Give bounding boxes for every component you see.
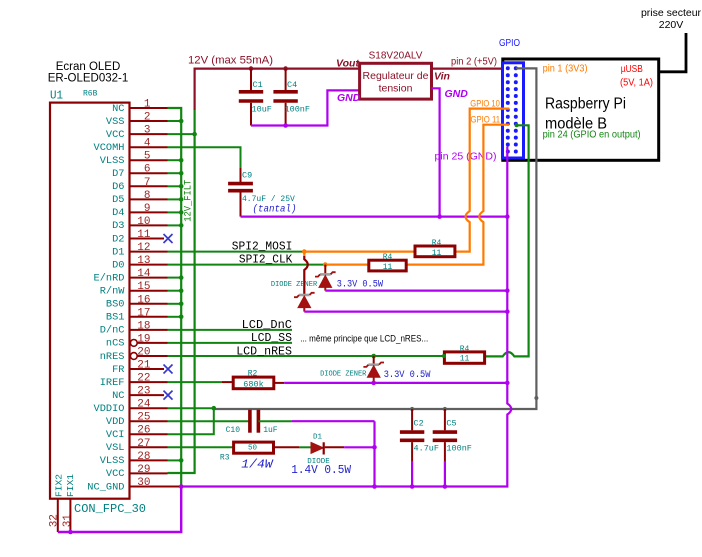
wire pin 6 to GND bus: [168, 171, 184, 176]
wire GPIO pin24 to LCD_nRES R4: [485, 123, 529, 356]
pin 9 (D4): [112, 203, 167, 219]
title text Ecran OLED: [48, 61, 129, 85]
svg-text:FIX2: FIX2: [54, 474, 65, 497]
junction purple C: [505, 381, 510, 386]
svg-text:R3: R3: [220, 454, 230, 463]
wire GND zener MOSI: [304, 311, 507, 313]
svg-text:prise secteur: prise secteur: [641, 7, 702, 19]
svg-text:10uF: 10uF: [252, 105, 272, 115]
junction gray vertical: [534, 396, 538, 400]
wire pin 17 to GND bus: [168, 315, 184, 320]
junction nRES/zener: [371, 354, 376, 359]
label pin 1 (3V3): [543, 64, 588, 75]
label GPIO 11: [471, 114, 501, 125]
svg-text:C9: C9: [242, 171, 252, 181]
label prise secteur 220V: [641, 7, 702, 31]
svg-text:8: 8: [144, 190, 151, 202]
svg-text:Regulateur de: Regulateur de: [363, 70, 429, 82]
junction C5/GND rail: [443, 484, 448, 489]
svg-text:220V: 220V: [659, 19, 684, 31]
svg-text:BS0: BS0: [106, 299, 125, 311]
svg-text:11: 11: [137, 229, 151, 241]
wire nRES zener lead: [373, 356, 375, 365]
wire pin4 VCOMH to C9: [168, 147, 241, 170]
svg-text:LCD_nRES: LCD_nRES: [236, 344, 292, 358]
wire pin 10 to GND bus: [168, 223, 184, 228]
svg-text:12: 12: [137, 242, 150, 254]
label GPIO 10: [470, 98, 500, 109]
svg-text:NC: NC: [112, 390, 124, 402]
wire LCD_SS (pin19): [168, 342, 293, 344]
wire GND zener CLK: [325, 290, 507, 292]
svg-text:E/nRD: E/nRD: [94, 272, 125, 284]
label 12V (max 55mA): [188, 55, 273, 67]
wire SPI2_CLK (pin13): [168, 264, 369, 266]
svg-text:4.7uF: 4.7uF: [414, 444, 440, 454]
capacitor C10: [226, 410, 278, 435]
svg-text:14: 14: [137, 268, 151, 280]
junction pin30/GND: [179, 484, 184, 489]
svg-text:D1: D1: [112, 246, 124, 258]
svg-text:µUSB: µUSB: [621, 63, 643, 75]
svg-text:VCI: VCI: [106, 429, 125, 441]
svg-text:2: 2: [144, 112, 151, 124]
svg-text:R4: R4: [432, 239, 442, 248]
wire Vin +5V to GPIO pin2: [432, 67, 508, 69]
connector U1 body (CON_FPC_30): [50, 103, 130, 499]
label pin 24 (GPIO en output): [543, 129, 641, 140]
junction 3V3/C5: [443, 407, 447, 411]
junction 3V3/C2: [410, 407, 414, 411]
junction 12V/C1: [249, 66, 254, 71]
label 3.3V 0.5W (CLK): [337, 280, 383, 291]
label µUSB: [620, 63, 653, 88]
zener diode D2 (MOSI): [294, 293, 315, 312]
label GND left: [337, 92, 361, 104]
svg-text:100nF: 100nF: [446, 444, 472, 454]
resistor R2: [233, 369, 274, 389]
svg-text:5: 5: [144, 151, 151, 163]
pin 28 (VLSS): [100, 451, 168, 467]
wire pin 9 to GND bus: [168, 210, 184, 215]
label LCD_DnC: [242, 318, 292, 332]
pin 24 (VDDIO): [94, 399, 168, 415]
svg-text:NC: NC: [112, 103, 124, 115]
svg-text:R/nW: R/nW: [100, 286, 125, 298]
svg-text:9: 9: [144, 203, 151, 215]
svg-text:D2: D2: [112, 233, 124, 245]
svg-text:BS1: BS1: [106, 312, 125, 324]
junction purple A: [505, 288, 510, 293]
pin 21 (FR): [112, 360, 172, 376]
junction GND rail / pin25 vertical: [505, 214, 510, 219]
junction purple B: [505, 309, 510, 314]
wire VDD (pin25) to C10: [168, 420, 250, 422]
svg-text:D0: D0: [112, 259, 124, 271]
svg-text:680k: 680k: [243, 380, 263, 390]
pin 30 (NC_GND): [87, 477, 167, 493]
svg-text:DIODE ZENER: DIODE ZENER: [320, 371, 367, 379]
resistor R4 (MOSI): [415, 239, 455, 258]
svg-text:nRES: nRES: [100, 351, 125, 363]
svg-text:DIODE ZENER: DIODE ZENER: [271, 281, 318, 289]
svg-text:11: 11: [460, 355, 470, 364]
wire NC_GND (pin30) GND rail: [168, 486, 182, 488]
junction pin31/bottom wire: [68, 530, 73, 535]
label LCD_SS: [251, 331, 292, 345]
junction 12V/C4: [283, 66, 288, 71]
svg-text:D7: D7: [112, 168, 124, 180]
svg-text:R4: R4: [460, 345, 470, 354]
svg-text:11: 11: [432, 249, 442, 258]
pin 23 (NC): [112, 386, 172, 402]
svg-text:R2: R2: [248, 369, 258, 378]
wire GND from regulator left to C1/C4: [251, 90, 360, 125]
capacitor C9: [228, 168, 295, 217]
pin 16 (BS0): [106, 294, 168, 310]
capacitor C2: [400, 409, 439, 487]
svg-text:(tantal): (tantal): [253, 204, 297, 216]
svg-text:GPIO: GPIO: [499, 37, 520, 49]
svg-text:R6B: R6B: [83, 90, 98, 99]
wire bottom GND loop: [58, 487, 181, 533]
svg-text:VCC: VCC: [106, 129, 125, 141]
label meme principe: [300, 334, 428, 344]
svg-text:VDD: VDD: [106, 416, 125, 428]
svg-text:21: 21: [137, 360, 151, 372]
label pin 2 (+5V): [451, 57, 497, 68]
capacitor C1: [239, 69, 272, 126]
wire GPIO10 to R4a: [455, 109, 509, 252]
svg-text:100nF: 100nF: [285, 105, 311, 115]
junction MOSI/zener: [302, 249, 307, 254]
capacitor C4: [273, 69, 310, 126]
svg-text:Ecran OLED: Ecran OLED: [56, 61, 121, 73]
svg-text:nCS: nCS: [106, 338, 125, 350]
svg-text:D6: D6: [112, 181, 124, 193]
junction CLK/zener: [323, 262, 328, 267]
svg-text:28: 28: [137, 451, 150, 463]
svg-text:Vout: Vout: [336, 58, 359, 70]
svg-text:29: 29: [137, 464, 150, 476]
reference U1: [50, 90, 63, 103]
label (tantal): [253, 204, 297, 216]
wire LCD_DnC (pin18): [168, 329, 293, 331]
pin 26 (VCI): [106, 425, 168, 441]
junction regulator GND / GND rail: [437, 214, 442, 219]
pin 1 (NC): [112, 99, 167, 115]
wire IREF (pin22): [168, 381, 234, 383]
pin 10 (D3): [112, 216, 167, 232]
svg-text:D3: D3: [112, 220, 124, 232]
svg-text:C5: C5: [446, 419, 456, 429]
svg-text:12V_FILT: 12V_FILT: [184, 180, 195, 222]
wire GPIO11 to R4b: [406, 125, 509, 265]
wire µUSB to prise secteur: [659, 33, 686, 72]
svg-text:U1: U1: [50, 90, 63, 103]
svg-text:FR: FR: [112, 364, 125, 376]
wire GND right of regulator down: [432, 88, 440, 216]
wire VDDIO to VCI (pin26): [168, 408, 214, 434]
wire VSL (pin27) to R3: [168, 446, 234, 448]
pin 8 (D5): [112, 190, 167, 206]
pin 3 (VCC): [106, 125, 168, 141]
svg-text:VLSS: VLSS: [100, 455, 125, 467]
junction C4/GND: [283, 123, 288, 128]
svg-text:3: 3: [144, 125, 151, 137]
wire pin 5 to GND bus: [168, 158, 184, 163]
svg-text:pin 2 (+5V): pin 2 (+5V): [451, 57, 497, 68]
junction 3V3/VDDIO pin24: [168, 406, 217, 411]
svg-text:... même principe que LCD_nRES: ... même principe que LCD_nRES...: [300, 334, 428, 344]
svg-text:pin 25 (GND): pin 25 (GND): [435, 151, 497, 163]
svg-text:VCC: VCC: [106, 468, 125, 480]
pin 7 (D6): [112, 177, 167, 193]
svg-text:LCD_DnC: LCD_DnC: [242, 318, 292, 332]
wire LCD_nRES (pin20): [168, 355, 445, 357]
wire GND from GPIO pin25 down: [181, 147, 511, 487]
pin 27 (VSL): [106, 438, 168, 454]
junction D1/GND vertical: [372, 445, 377, 450]
label Vin: [434, 71, 450, 83]
label SPI2_CLK: [239, 252, 293, 266]
label GND right: [445, 88, 469, 100]
svg-text:19: 19: [137, 333, 150, 345]
pin 20 (nRES): [100, 347, 168, 363]
wire pin 16 to GND bus: [168, 302, 184, 307]
svg-text:SPI2_MOSI: SPI2_MOSI: [232, 239, 292, 253]
svg-text:VLSS: VLSS: [100, 155, 125, 167]
svg-text:50: 50: [248, 444, 258, 452]
svg-text:LCD_SS: LCD_SS: [251, 331, 292, 345]
svg-text:3.3V 0.5W: 3.3V 0.5W: [337, 280, 383, 291]
label DIODE ZENER (nRES): [320, 371, 367, 379]
svg-text:24: 24: [137, 399, 151, 411]
pin 22 (IREF): [100, 373, 168, 389]
svg-text:6: 6: [144, 164, 151, 176]
Raspberry Pi box: [503, 59, 659, 160]
svg-text:D/nC: D/nC: [100, 325, 125, 337]
svg-text:27: 27: [137, 438, 150, 450]
svg-text:pin 1 (3V3): pin 1 (3V3): [543, 64, 588, 75]
pin 2 (VSS): [106, 112, 168, 128]
wire D1 to GND: [325, 446, 375, 448]
wire GND rail y=216 (C9 to GPIO GND): [241, 216, 508, 218]
diode D1: [307, 434, 330, 467]
resistor R4 (nRES): [444, 345, 484, 364]
label 1/4W: [241, 458, 274, 472]
svg-text:3.3V 0.5W: 3.3V 0.5W: [384, 370, 431, 381]
svg-text:C2: C2: [414, 419, 424, 429]
svg-text:25: 25: [137, 412, 150, 424]
pin 14 (E/nRD): [94, 268, 168, 284]
resistor R4 (CLK): [369, 253, 406, 272]
junction nRES/R4: [442, 354, 446, 358]
pin 15 (R/nW): [100, 281, 168, 297]
label LCD_nRES: [236, 344, 292, 358]
pin 32 (FIX2): [49, 474, 65, 532]
wire CLK zener lead: [324, 265, 326, 275]
pin 18 (D/nC): [100, 320, 168, 336]
pin 12 (D1): [112, 242, 167, 258]
label SPI2_MOSI: [232, 239, 292, 253]
svg-text:22: 22: [137, 373, 150, 385]
svg-text:16: 16: [137, 294, 150, 306]
label CON_FPC_30: [74, 502, 146, 516]
svg-text:11: 11: [383, 263, 393, 272]
svg-text:17: 17: [137, 307, 150, 319]
svg-text:1uF: 1uF: [263, 426, 278, 435]
wire GND bus vertical (pins 1..30): [168, 108, 182, 487]
svg-text:30: 30: [137, 477, 150, 489]
wire R3 to D1: [274, 446, 312, 448]
svg-text:VSS: VSS: [106, 116, 125, 128]
wire pin 14 to GND bus: [168, 275, 184, 280]
pin 13 (D0): [112, 255, 167, 271]
wire 12V_FILT bus vertical (pin29 up): [168, 110, 195, 473]
wire pin 15 to GND bus: [168, 288, 184, 293]
pin 19 (nCS): [106, 333, 168, 349]
zener diode D4 (nRES): [363, 363, 384, 383]
svg-text:31: 31: [62, 514, 74, 528]
label 1.4V 0.5W: [291, 464, 351, 477]
svg-text:C1: C1: [253, 80, 263, 90]
svg-text:1.4V 0.5W: 1.4V 0.5W: [291, 464, 351, 477]
svg-text:SPI2_CLK: SPI2_CLK: [239, 252, 293, 266]
svg-text:D4: D4: [112, 207, 124, 219]
svg-text:GND: GND: [337, 92, 361, 104]
regulator U2 S18V20ALV: [360, 51, 432, 100]
wire R2 to GND: [274, 382, 508, 384]
wire 12V rail: [195, 69, 360, 110]
svg-text:20: 20: [137, 347, 150, 359]
capacitor C5: [433, 409, 472, 487]
wire pin 28 to GND bus: [168, 458, 184, 463]
wire pin 8 to GND bus: [168, 197, 184, 202]
svg-text:7: 7: [144, 177, 151, 189]
svg-text:S18V20ALV: S18V20ALV: [369, 51, 423, 62]
svg-text:IREF: IREF: [100, 377, 125, 389]
label 3.3V 0.5W (nRES): [384, 370, 431, 381]
svg-text:R4: R4: [383, 253, 393, 262]
svg-text:ER-OLED032-1: ER-OLED032-1: [48, 73, 129, 85]
junction GND vertical/rail: [372, 484, 377, 489]
net label 12V_FILT: [184, 180, 195, 222]
svg-text:18: 18: [137, 320, 150, 332]
wire MOSI zener drop: [304, 252, 308, 295]
svg-text:26: 26: [137, 425, 150, 437]
svg-text:VCOMH: VCOMH: [94, 142, 125, 154]
svg-text:GND: GND: [445, 88, 469, 100]
svg-text:1: 1: [144, 99, 151, 111]
svg-text:VSL: VSL: [106, 442, 125, 454]
pin 5 (VLSS): [100, 151, 168, 167]
wire 3V3 from GPIO pin1 to VDDIO: [214, 68, 537, 409]
svg-text:pin 24 (GPIO en output): pin 24 (GPIO en output): [543, 129, 641, 140]
svg-text:FIX1: FIX1: [65, 474, 76, 497]
svg-text:32: 32: [49, 514, 61, 527]
svg-text:D5: D5: [112, 194, 124, 206]
svg-text:C10: C10: [226, 426, 241, 435]
label GPIO: [499, 37, 520, 49]
svg-text:1/4W: 1/4W: [241, 458, 274, 472]
pin 6 (D7): [112, 164, 167, 180]
pin 31 (FIX1): [62, 474, 76, 532]
svg-text:15: 15: [137, 281, 150, 293]
pin 17 (BS1): [106, 307, 168, 323]
junction zener/GND C: [371, 381, 376, 386]
wire C10 to GND vertical: [258, 421, 374, 486]
wire pin 7 to GND bus: [168, 184, 184, 189]
pin 29 (VCC): [106, 464, 168, 480]
zener diode D3 (CLK): [315, 272, 336, 290]
svg-text:4: 4: [144, 138, 151, 150]
pin 11 (D2): [112, 229, 172, 245]
resistor R3: [220, 442, 274, 462]
svg-text:(5V, 1A): (5V, 1A): [620, 78, 653, 89]
svg-text:10: 10: [137, 216, 150, 228]
svg-text:23: 23: [137, 386, 150, 398]
value R6B: [83, 90, 98, 99]
svg-text:tension: tension: [379, 83, 413, 95]
wire pin 3 to 12V_FILT bus: [168, 132, 197, 137]
svg-text:VDDIO: VDDIO: [94, 403, 125, 415]
GPIO connector J1: [503, 63, 524, 158]
svg-text:13: 13: [137, 255, 150, 267]
pin 4 (VCOMH): [94, 138, 168, 154]
svg-text:C4: C4: [287, 80, 297, 90]
junction C2/GND rail: [410, 484, 415, 489]
svg-text:12V (max 55mA): 12V (max 55mA): [188, 55, 273, 67]
label Vout: [336, 58, 359, 70]
svg-text:Raspberry Pi: Raspberry Pi: [545, 96, 626, 113]
svg-text:D1: D1: [313, 434, 323, 442]
label DIODE ZENER (CLK): [271, 281, 318, 289]
pin 25 (VDD): [106, 412, 168, 428]
label Raspberry Pi: [545, 96, 626, 133]
svg-text:CON_FPC_30: CON_FPC_30: [74, 502, 146, 516]
wire SPI2_MOSI (pin12): [168, 251, 416, 253]
svg-text:NC_GND: NC_GND: [87, 481, 124, 493]
svg-text:Vin: Vin: [434, 71, 450, 83]
wire pin 2 to GND bus: [168, 119, 184, 124]
label pin 25 (GND): [435, 151, 497, 163]
